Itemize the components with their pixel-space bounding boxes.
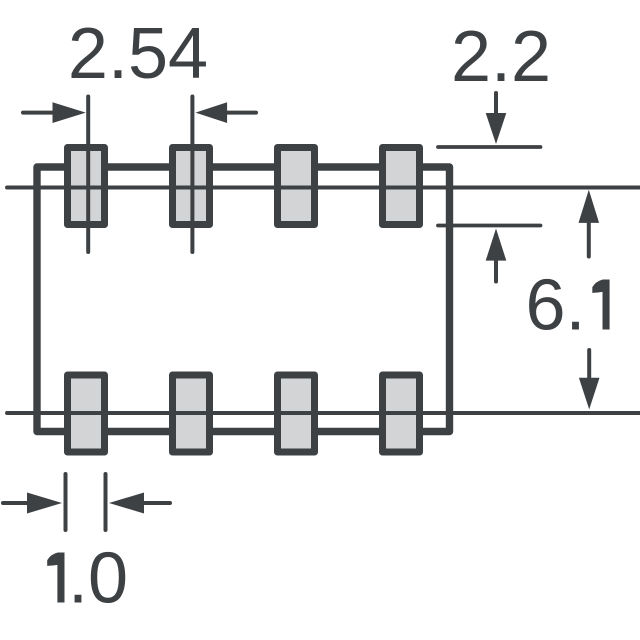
- dimension 1.0: left arrow (points right): [3, 501, 32, 505]
- dimension 1.0: right extension line (pad P5 right edge): [104, 474, 108, 530]
- dimension 2.2: down arrow above top line: [494, 93, 498, 116]
- pad P8 (bottom row): [383, 375, 420, 452]
- pad P5 (bottom row): [68, 375, 105, 452]
- svg-text:2.2: 2.2: [451, 17, 551, 97]
- component body outline: [37, 167, 450, 432]
- svg-text:6.: 6.: [526, 266, 586, 346]
- dimension 2.2: up arrow below bottom line: [494, 259, 498, 282]
- dimension 1.0: value label digit 1 (drawn as path): [47, 553, 64, 603]
- pad P2 (top row): [173, 148, 210, 225]
- dimension 2.54: left extension line (through pad P1 center): [86, 97, 90, 253]
- dimension 2.54: left arrow (points right): [23, 111, 56, 115]
- bottom row centerline (6.1 reference, full width): [7, 411, 640, 415]
- pad P6 (bottom row): [173, 375, 210, 452]
- dimension 2.54: right arrow (points left): [225, 111, 256, 115]
- pad P1 (top row): [68, 148, 105, 225]
- dimension 1.0: left extension line (pad P5 left edge): [64, 474, 68, 530]
- top row centerline (6.1 reference, full width): [7, 186, 640, 190]
- dimension 1.0: right arrow (points left): [140, 501, 170, 505]
- dimension 2.54: right extension line (through pad P2 center): [190, 97, 194, 253]
- dimension 6.1: down arrow to bottom centerline: [587, 350, 591, 379]
- svg-text:.0: .0: [68, 539, 128, 619]
- dimension 6.1: value label digit 1 (drawn as path): [592, 280, 609, 330]
- dimension 6.1: up arrow to top centerline: [587, 222, 591, 257]
- svg-text:2.54: 2.54: [68, 14, 208, 94]
- pad P3 (top row): [278, 148, 315, 225]
- pad P7 (bottom row): [278, 375, 315, 452]
- dimension 2.2: bottom extension line (pad bottom edge): [438, 224, 541, 228]
- pad P4 (top row): [383, 148, 420, 225]
- dimension 2.2: top extension line (pad top edge): [438, 145, 541, 149]
